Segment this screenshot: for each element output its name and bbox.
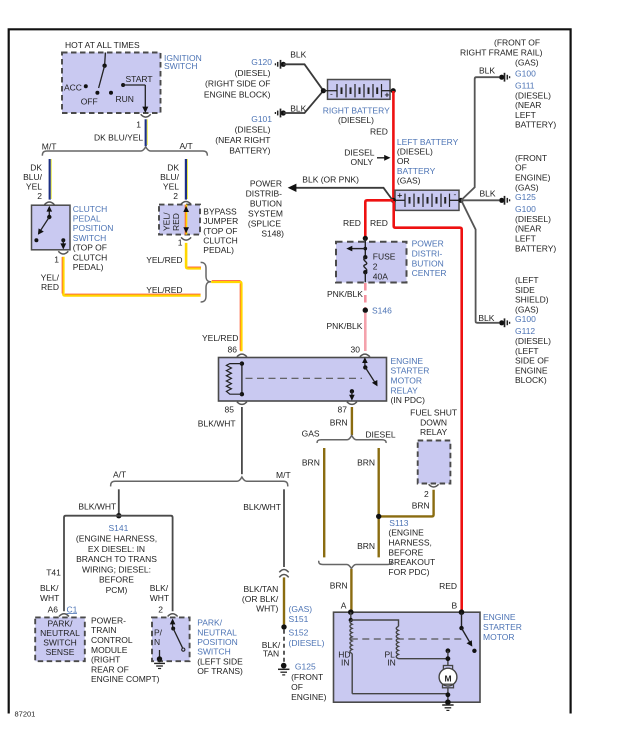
svg-text:85: 85 [225,405,235,415]
svg-text:BATTERY): BATTERY) [229,146,270,156]
svg-text:CLUTCH: CLUTCH [73,252,107,262]
svg-text:WHT: WHT [150,593,169,603]
svg-text:BUTION: BUTION [412,258,444,268]
engine starter motor relay [219,354,430,415]
svg-text:BRN: BRN [302,458,320,468]
svg-text:(DIESEL): (DIESEL) [515,214,551,224]
svg-text:(OR BLK/: (OR BLK/ [242,594,279,604]
svg-text:+: + [385,90,390,100]
wire BRN fuel relay to S113 [379,490,434,517]
connector pin 2 (park/neutral switch) [168,614,178,617]
svg-text:87: 87 [338,405,348,415]
ground G120 [204,57,286,99]
power distribution center (fuse box) [336,236,447,283]
svg-text:YEL/: YEL/ [41,272,60,282]
svg-text:G100: G100 [515,204,536,214]
wire BLK battery to G100/G112 [461,201,499,324]
svg-text:(GAS): (GAS) [397,175,421,185]
svg-text:PARK/: PARK/ [197,618,223,628]
svg-text:SIDE: SIDE [515,285,535,295]
splice S151/S152 [281,604,324,648]
svg-text:PNK/BLK: PNK/BLK [327,321,363,331]
wire YEL/RED to relay pin 86 [202,281,241,355]
svg-text:SWITCH: SWITCH [164,61,198,71]
svg-text:REAR OF: REAR OF [91,664,129,674]
wire RED battery to starter motor B [394,201,462,612]
svg-text:T41: T41 [46,568,61,578]
wire BLK G120 to battery [283,50,323,91]
merge brace GAS/DIESEL to starter [319,561,392,569]
svg-text:POWER-: POWER- [91,615,126,625]
brace merge (yellow wires) [201,262,212,302]
svg-text:(TOP OF: (TOP OF [203,226,237,236]
svg-text:FUEL SHUT: FUEL SHUT [410,408,457,418]
svg-text:G100: G100 [515,314,536,324]
svg-text:OF TRANS): OF TRANS) [197,666,243,676]
svg-text:N: N [154,637,160,647]
svg-text:-: - [330,89,333,99]
svg-text:WIRING; DIESEL:: WIRING; DIESEL: [82,564,151,574]
svg-text:OFF: OFF [81,97,98,107]
svg-text:EX DIESEL: IN: EX DIESEL: IN [88,544,145,554]
svg-text:IN: IN [341,657,350,667]
svg-text:MODULE: MODULE [91,645,128,655]
svg-text:2: 2 [173,191,178,201]
svg-text:BLK/: BLK/ [150,583,169,593]
svg-text:G111: G111 [515,80,535,90]
svg-text:BLK/TAN: BLK/TAN [244,584,279,594]
svg-text:HOT AT ALL TIMES: HOT AT ALL TIMES [65,40,140,50]
svg-text:LEFT: LEFT [515,110,536,120]
svg-text:BLK: BLK [479,65,495,75]
svg-text:YEL/RED: YEL/RED [146,285,182,295]
wire BLK/WHT M/T branch [243,489,284,567]
svg-text:SYSTEM: SYSTEM [248,209,283,219]
svg-text:BRN: BRN [357,541,375,551]
svg-text:BLU/: BLU/ [160,172,180,182]
svg-text:BLK: BLK [478,313,494,323]
svg-text:(DIESEL): (DIESEL) [235,125,271,135]
wire BLK/WHT A/T branch [78,489,118,513]
ignition switch [62,40,202,113]
svg-text:86: 86 [228,345,238,355]
svg-text:BLU/: BLU/ [23,172,43,182]
svg-text:DK: DK [30,163,42,173]
svg-text:RIGHT FRAME RAIL): RIGHT FRAME RAIL) [460,47,543,57]
svg-text:BLOCK): BLOCK) [515,375,547,385]
svg-text:P/: P/ [154,627,163,637]
svg-text:YEL/: YEL/ [162,212,172,231]
wire BRN GAS branch [302,448,324,557]
svg-text:ENGINE: ENGINE [483,612,516,622]
svg-text:2: 2 [373,261,378,271]
svg-text:FUSE: FUSE [373,251,396,261]
svg-text:YEL: YEL [163,182,179,192]
svg-text:BLK/WHT: BLK/WHT [243,502,281,512]
svg-text:S113: S113 [389,518,408,528]
svg-text:G120: G120 [251,57,272,67]
svg-text:YEL/RED: YEL/RED [146,255,182,265]
ground (starter motor) [442,705,453,710]
svg-text:BLK/WHT: BLK/WHT [198,419,236,429]
svg-text:BYPASS: BYPASS [203,206,237,216]
wire PNK/BLK S146 to relay pin 30 [327,313,366,355]
svg-text:A/T: A/T [113,470,126,480]
svg-text:S152: S152 [289,628,309,638]
svg-text:G125: G125 [515,192,536,202]
svg-text:MOTOR: MOTOR [391,376,422,386]
svg-text:BLK: BLK [290,50,306,60]
svg-text:ENGINE): ENGINE) [291,692,327,702]
wire BLK/WHT relay 85 down [198,407,242,474]
svg-text:SHIELD): SHIELD) [515,295,549,305]
svg-text:2: 2 [37,191,42,201]
svg-text:RELAY: RELAY [391,385,419,395]
svg-text:BATTERY): BATTERY) [515,120,556,130]
svg-text:(ENGINE: (ENGINE [388,528,424,538]
svg-text:DISTRI-: DISTRI- [412,248,443,258]
wire BLK battery to G125/G100 [461,189,499,201]
svg-text:DOWN: DOWN [420,417,447,427]
svg-text:+: + [397,190,402,200]
split A/T M/T (second) [111,470,291,487]
engine starter motor [334,609,522,705]
svg-text:S148): S148) [261,228,284,238]
svg-text:(GAS): (GAS) [289,604,313,614]
wire DK BLU/YEL right branch [160,159,187,201]
svg-text:RED: RED [370,218,388,228]
svg-text:ENGINE): ENGINE) [515,173,551,183]
wire BLK/WHT S141 to park/neutral position switch [119,516,173,615]
inline connector (M/T branch) [279,569,288,577]
park/neutral position switch [152,617,243,676]
svg-text:CONTROL: CONTROL [91,635,133,645]
wire YEL/RED from clutch switch [41,257,201,296]
svg-text:RELAY: RELAY [420,427,448,437]
svg-text:YEL/RED: YEL/RED [202,333,238,343]
wire BLK/TAN to S151/S152 [242,577,284,624]
svg-text:(DIESEL): (DIESEL) [289,638,325,648]
svg-text:CENTER: CENTER [412,268,447,278]
svg-text:(DIESEL): (DIESEL) [515,336,551,346]
svg-text:C1: C1 [67,604,78,614]
ground G125 (front of engine) [278,662,327,702]
svg-text:ENGINE: ENGINE [515,365,548,375]
svg-text:HARNESS,: HARNESS, [388,538,431,548]
svg-text:(FRONT OF: (FRONT OF [494,38,540,48]
clutch pedal position switch [32,204,114,272]
svg-text:BLK/WHT: BLK/WHT [78,502,116,512]
svg-text:(GAS): (GAS) [515,304,539,314]
ground G100/G112 (left side shield) [499,275,551,385]
svg-text:WHT: WHT [40,593,59,603]
svg-text:(SPLICE: (SPLICE [248,218,281,228]
svg-text:DISTRIB-: DISTRIB- [246,189,283,199]
svg-text:OR: OR [397,156,410,166]
svg-text:STARTER: STARTER [391,366,430,376]
svg-text:BRN: BRN [357,458,375,468]
svg-text:ACC: ACC [64,83,82,93]
svg-text:2: 2 [424,489,429,499]
svg-text:RUN: RUN [116,94,134,104]
svg-text:G101: G101 [251,114,272,124]
svg-text:BREAKOUT: BREAKOUT [388,557,435,567]
svg-text:(RIGHT SIDE OF: (RIGHT SIDE OF [205,79,271,89]
wire DK BLU/YEL from ignition [94,119,147,146]
svg-text:(LEFT: (LEFT [515,275,539,285]
svg-text:(DIESEL): (DIESEL) [338,115,374,125]
svg-text:ENGINE BLOCK): ENGINE BLOCK) [204,89,271,99]
connector pin 1 (clutch switch) [54,251,68,264]
svg-text:BEFORE: BEFORE [388,547,423,557]
svg-text:2: 2 [158,604,163,614]
svg-text:S146: S146 [372,305,392,315]
svg-text:ENGINE COMPT): ENGINE COMPT) [91,674,160,684]
svg-text:(DIESEL): (DIESEL) [235,68,271,78]
ground G100/G111 (right frame rail) [460,38,556,130]
connector C1 [59,604,78,616]
svg-text:SWITCH: SWITCH [197,647,231,657]
right battery [321,80,396,125]
svg-text:PEDAL): PEDAL) [203,245,234,255]
svg-text:BEFORE: BEFORE [99,575,134,585]
svg-text:-: - [454,189,457,199]
svg-text:1: 1 [136,120,141,130]
svg-text:TRAIN: TRAIN [91,625,117,635]
svg-text:NEUTRAL: NEUTRAL [197,627,237,637]
svg-text:(LEFT: (LEFT [515,346,539,356]
svg-text:(NEAR: (NEAR [515,224,541,234]
svg-text:(TOP OF: (TOP OF [73,243,107,253]
svg-text:RED: RED [41,282,59,292]
svg-text:BRANCH TO TRANS: BRANCH TO TRANS [76,554,157,564]
svg-text:LEFT BATTERY: LEFT BATTERY [397,137,459,147]
svg-text:B: B [452,601,458,611]
svg-text:RED: RED [439,581,457,591]
left battery [391,137,464,210]
split GAS/DIESEL [302,429,396,443]
svg-text:PEDAL): PEDAL) [73,262,104,272]
svg-text:BUTION: BUTION [250,199,282,209]
svg-text:G125: G125 [295,662,316,672]
svg-text:ONLY: ONLY [350,157,373,167]
svg-text:DIESEL: DIESEL [344,148,375,158]
svg-text:30: 30 [351,344,361,354]
svg-text:CLUTCH: CLUTCH [203,236,237,246]
DIESEL ONLY arrow [344,148,390,168]
svg-text:1: 1 [54,255,59,265]
svg-text:RED: RED [343,218,361,228]
svg-text:MOTOR: MOTOR [483,632,514,642]
svg-text:OF: OF [291,682,303,692]
svg-text:JUMPER: JUMPER [203,216,238,226]
svg-text:WHT): WHT) [256,603,278,613]
svg-text:(NEAR RIGHT: (NEAR RIGHT [215,135,270,145]
wire BRN DIESEL branch [357,448,379,557]
fuel shut down relay [410,408,457,484]
svg-text:OF: OF [515,163,527,173]
wire RED right battery to left battery [370,91,393,200]
svg-text:(NEAR: (NEAR [515,100,541,110]
splice S141 [76,513,157,595]
svg-text:RED: RED [171,213,181,231]
svg-text:POWER: POWER [250,179,282,189]
svg-text:BLK (OR PNK): BLK (OR PNK) [302,174,359,184]
wire BRN relay 87 down [330,407,352,435]
svg-text:(FRONT: (FRONT [515,153,547,163]
svg-text:BLK/: BLK/ [40,583,59,593]
svg-text:SENSE: SENSE [46,647,75,657]
powertrain control module (park/neutral switch sense) [35,615,159,684]
svg-text:ENGINE: ENGINE [391,356,424,366]
svg-text:(DIESEL): (DIESEL) [515,90,551,100]
wire BLK/WHT S141 to PCM [40,516,119,615]
svg-text:CLUTCH: CLUTCH [73,204,107,214]
svg-text:TAN: TAN [263,649,279,659]
svg-text:POSITION: POSITION [197,637,238,647]
svg-text:DK BLU/YEL: DK BLU/YEL [94,133,143,143]
svg-text:A/T: A/T [180,141,193,151]
connector pin 2 (clutch switch) [44,202,54,205]
wire RED battery to fuse [343,200,393,236]
node: power distribution system text [246,179,285,239]
wire BRN to starter motor A [330,569,458,611]
svg-text:(RIGHT: (RIGHT [91,655,120,665]
svg-text:M/T: M/T [276,470,291,480]
wire BLK/TAN dashed to G125 [262,630,284,663]
svg-text:(LEFT SIDE: (LEFT SIDE [197,656,243,666]
svg-text:POWER: POWER [412,239,444,249]
wire BLK (OR PNK) to power distribution [288,174,393,199]
svg-text:DK: DK [167,163,179,173]
svg-text:S141: S141 [109,523,129,533]
svg-text:DIESEL: DIESEL [365,430,396,440]
svg-text:START: START [126,74,153,84]
svg-text:SWITCH: SWITCH [73,233,107,243]
svg-text:BLK: BLK [290,104,306,114]
split M/T A/T (top) [42,141,208,156]
svg-text:YEL: YEL [26,182,42,192]
svg-text:BRN: BRN [412,500,430,510]
svg-text:GAS: GAS [302,429,320,439]
svg-text:PCM): PCM) [106,585,128,595]
wire YEL/RED from bypass jumper [146,243,201,268]
bypass jumper [159,205,238,256]
svg-text:A6: A6 [48,604,59,614]
svg-text:BRN: BRN [330,581,348,591]
connector pin 1 (bypass jumper) [178,237,191,247]
svg-text:M/T: M/T [42,142,57,152]
svg-text:STARTER: STARTER [483,622,522,632]
splice S146 [363,305,393,315]
svg-text:1: 1 [178,238,183,248]
svg-text:87201: 87201 [15,710,36,719]
svg-text:S151: S151 [289,614,309,624]
svg-text:G100: G100 [515,68,536,78]
ground G101 [215,109,286,156]
svg-text:RED: RED [370,127,388,137]
connector pin 1 (ignition output) [136,114,150,129]
svg-text:BRN: BRN [330,417,348,427]
svg-text:(IN PDC): (IN PDC) [391,395,426,405]
svg-text:IN: IN [387,657,396,667]
svg-text:POSITION: POSITION [73,223,114,233]
svg-text:PEDAL: PEDAL [73,214,101,224]
wire BLK battery to G100/G111 [461,65,499,200]
svg-text:(ENGINE HARNESS,: (ENGINE HARNESS, [76,534,157,544]
svg-text:BATTERY: BATTERY [397,166,436,176]
svg-text:SIDE OF: SIDE OF [515,356,549,366]
connector pin 2 (bypass jumper) [181,201,191,204]
svg-text:(GAS): (GAS) [515,182,539,192]
svg-text:A: A [341,601,347,611]
svg-text:40A: 40A [373,271,388,281]
svg-text:M: M [444,674,451,684]
ground G125/G100 (front of engine) [499,153,556,253]
connector pin 2 (fuel shut down relay) [424,484,439,499]
wire PNK/BLK fuse to S146 [327,283,365,308]
svg-text:FOR PDC): FOR PDC) [388,567,429,577]
wire DK BLU/YEL left branch [23,159,51,201]
svg-text:G112: G112 [515,326,535,336]
svg-text:BATTERY): BATTERY) [515,243,556,253]
svg-text:(FRONT: (FRONT [291,672,323,682]
svg-text:BLK: BLK [480,189,496,199]
svg-text:LEFT: LEFT [515,234,536,244]
splice S113 [376,514,435,577]
svg-text:(GAS): (GAS) [515,58,539,68]
wire BLK G101 to battery [283,91,323,114]
svg-text:(DIESEL): (DIESEL) [397,147,433,157]
svg-text:PNK/BLK: PNK/BLK [327,289,363,299]
